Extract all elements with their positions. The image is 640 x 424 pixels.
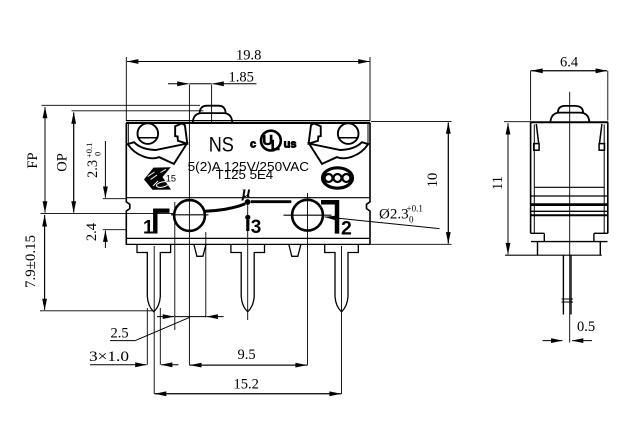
svg-text:µ: µ: [241, 184, 251, 201]
svg-text:7.9±0.15: 7.9±0.15: [23, 235, 39, 288]
svg-text:2.5: 2.5: [111, 325, 129, 341]
svg-text:0.5: 0.5: [577, 319, 595, 335]
svg-text:c: c: [250, 139, 256, 151]
svg-text:0: 0: [409, 215, 414, 225]
svg-text:OP: OP: [55, 153, 71, 172]
svg-text:1.85: 1.85: [229, 70, 254, 86]
svg-text:FP: FP: [25, 152, 41, 168]
svg-text:NS: NS: [209, 133, 234, 156]
svg-text:us: us: [284, 139, 297, 151]
svg-text:3: 3: [251, 217, 262, 238]
svg-text:19.8: 19.8: [236, 48, 261, 64]
svg-text:L: L: [271, 137, 280, 154]
svg-text:1: 1: [143, 218, 154, 239]
svg-text:+0.1: +0.1: [407, 204, 423, 214]
svg-text:10: 10: [425, 173, 441, 188]
svg-text:2.4: 2.4: [84, 222, 100, 241]
svg-text:T125 5E4: T125 5E4: [216, 168, 274, 182]
svg-text:11: 11: [490, 176, 506, 190]
svg-text:9.5: 9.5: [238, 347, 256, 363]
svg-text:0: 0: [93, 152, 103, 156]
svg-text:2.3: 2.3: [85, 160, 101, 178]
svg-text:2: 2: [341, 218, 352, 240]
svg-text:6.4: 6.4: [560, 55, 579, 71]
svg-text:3×1.0: 3×1.0: [89, 349, 129, 365]
svg-text:Ø2.3: Ø2.3: [379, 207, 409, 223]
svg-text:15: 15: [166, 173, 176, 183]
svg-text:15.2: 15.2: [234, 377, 259, 393]
